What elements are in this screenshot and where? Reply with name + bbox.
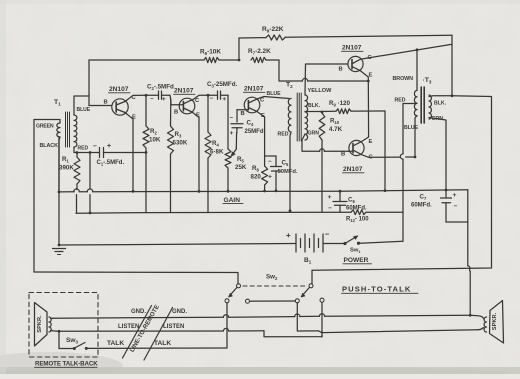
transformer T1 core: [66, 112, 70, 147]
resistor R9 120: [321, 100, 385, 114]
svg-text:4.7K: 4.7K: [329, 126, 343, 133]
svg-text:2N107: 2N107: [343, 166, 363, 173]
capacitor C3 25MFd: [207, 81, 237, 103]
svg-text:GAIN: GAIN: [224, 197, 241, 204]
svg-text:BLUE: BLUE: [267, 91, 282, 97]
svg-text:RED: RED: [78, 146, 89, 152]
battery B1: [286, 230, 345, 265]
wire Q5 collector to T3 blue: [361, 155, 416, 159]
svg-text:GND.: GND.: [131, 309, 146, 315]
ground: [53, 249, 66, 255]
transformer T2 core: [297, 93, 301, 141]
svg-text:+: +: [162, 96, 166, 103]
svg-text:−: −: [93, 143, 97, 150]
wire speaker return: [297, 303, 483, 333]
wire R6 line: [89, 59, 239, 61]
switch Sw3: [66, 337, 88, 350]
label REMOTE TALK-BACK: [35, 361, 99, 368]
resistor R8 820: [251, 165, 268, 192]
wire Q4 emitter to Q5 emitter: [360, 71, 368, 137]
svg-text:TALK: TALK: [107, 340, 124, 347]
svg-text:820: 820: [251, 174, 262, 181]
svg-text:R6-10K: R6-10K: [200, 49, 221, 56]
switch Sw2 right pole: [295, 284, 324, 303]
wire R1 bottom to supply bus: [76, 189, 78, 214]
wire vertical from R11 line down to R6 line: [238, 38, 241, 61]
svg-text:B: B: [339, 67, 343, 73]
transformer T3 primary winding: [393, 76, 418, 116]
svg-text:RED: RED: [395, 98, 406, 104]
resistor R3 530K: [168, 99, 188, 212]
wire talk riser: [226, 303, 228, 348]
speaker remote voice coil: [49, 317, 51, 332]
transformer T1 secondary winding: [74, 115, 77, 147]
svg-text:−: −: [150, 97, 154, 103]
svg-text:−: −: [328, 205, 332, 212]
label GND left: [131, 309, 146, 315]
svg-text:GRN: GRN: [308, 131, 320, 137]
resistor R10 4.7K: [319, 111, 342, 212]
wire GND line: [53, 314, 470, 319]
wire remote speaker bottom: [51, 330, 61, 333]
svg-text:+: +: [453, 192, 457, 199]
wire ground bus drop to speakers: [468, 190, 472, 317]
svg-text:POWER: POWER: [344, 257, 369, 264]
svg-text:60MFd.: 60MFd.: [346, 206, 367, 212]
transistor Q2 2N107: [171, 98, 200, 119]
svg-text:25K: 25K: [235, 164, 247, 171]
wire R11 feedback line top: [239, 35, 452, 38]
wire driver emitter feed y81: [279, 78, 370, 82]
wire BLK lead T3: [429, 94, 453, 106]
wire RED lead T2: [278, 132, 292, 213]
wire YELLOW lead: [305, 64, 348, 95]
svg-text:−: −: [230, 116, 234, 122]
wire battery bus: [59, 244, 296, 246]
resistor R2 10K: [143, 95, 161, 212]
wire GRN lead T3: [429, 116, 447, 191]
wire C1 junction down to supply bus: [89, 151, 92, 214]
svg-text:−: −: [325, 230, 330, 239]
svg-text:+: +: [222, 96, 226, 103]
wire T3 primary top riser: [416, 50, 418, 91]
svg-text:+: +: [230, 130, 234, 137]
cable slash 2: [144, 308, 173, 361]
wire ground stem: [58, 138, 61, 246]
capacitor C7 60MFd: [411, 190, 468, 222]
wire R7 to T2 yellow staircase: [266, 60, 279, 81]
svg-text:GREEN: GREEN: [36, 124, 54, 130]
transformer T1 primary winding: [57, 123, 60, 137]
svg-text:B: B: [341, 152, 345, 158]
svg-text:25MFd: 25MFd: [245, 129, 264, 135]
svg-text:GND.: GND.: [172, 309, 187, 315]
wire bottom bus to Sw2 left pivot: [34, 272, 238, 284]
wire BLUE lead T1: [74, 96, 91, 115]
svg-text:2N107: 2N107: [244, 86, 264, 93]
wire C2 out corner: [170, 95, 171, 105]
transistor Q1 2N107 label: [109, 86, 131, 93]
wire left edge vertical green to Sw2: [33, 120, 35, 273]
svg-text:SPKR.: SPKR.: [37, 315, 43, 333]
svg-text:LISTEN: LISTEN: [118, 324, 139, 330]
transformer T2 primary winding: [288, 99, 291, 133]
svg-text:−: −: [268, 159, 272, 165]
wire BLACK lead: [40, 137, 61, 192]
svg-text:60MFd.: 60MFd.: [411, 203, 432, 209]
wire LISTEN line: [59, 328, 322, 336]
svg-text:TALK: TALK: [154, 340, 171, 347]
svg-text:BLUE: BLUE: [77, 107, 91, 113]
svg-text:530K: 530K: [173, 140, 188, 147]
svg-text:BLACK: BLACK: [40, 143, 59, 149]
svg-text:BLK.: BLK.: [434, 101, 447, 107]
svg-text:10K: 10K: [149, 137, 161, 144]
svg-text:R9 ·120: R9 ·120: [329, 100, 350, 107]
transistor Q5 2N107: [341, 139, 374, 161]
label TALK left: [107, 340, 124, 347]
wire Q2 emitter: [192, 112, 200, 193]
svg-text:C2-.5MFd: C2-.5MFd: [147, 84, 174, 91]
transistor Q3 2N107 label: [244, 86, 266, 93]
wire Q4 collector diagonal: [360, 44, 452, 59]
resistor R11 22K: [262, 26, 285, 40]
svg-text:+: +: [107, 143, 111, 150]
transistor Q4 2N107: [339, 55, 373, 79]
svg-text:REMOTE TALK-BACK: REMOTE TALK-BACK: [35, 361, 98, 368]
capacitor C6 60MFd: [328, 190, 368, 212]
svg-text:R9-22K: R9-22K: [262, 26, 284, 33]
wire Q3 collector to T2 blue: [257, 91, 289, 99]
resistor R1 390K: [59, 153, 80, 189]
svg-text:R7-2.2K: R7-2.2K: [248, 48, 271, 55]
wire GRN lead T2 to Q5 base: [302, 131, 349, 152]
transistor Q3 2N107: [237, 97, 265, 119]
capacitor C4 25MFd: [230, 110, 264, 137]
resistor R7 2.2K: [248, 48, 271, 63]
wire BLUE lead T3: [404, 116, 419, 158]
wire R9 end down to ground: [384, 111, 387, 192]
wire Sw2 center link: [250, 300, 296, 302]
svg-text:2N107: 2N107: [342, 45, 362, 52]
label LINE-TO-REMOTE: [129, 304, 161, 354]
resistor R5 25K gain control: [225, 95, 247, 192]
svg-text:YELLOW: YELLOW: [308, 88, 333, 94]
remote dashed enclosure: [29, 293, 98, 358]
switch Sw2 mechanical link: [243, 285, 306, 287]
transformer T3 core: [421, 87, 424, 123]
svg-text:+: +: [286, 231, 291, 240]
speaker main: [490, 301, 504, 344]
resistor R12 100: [346, 210, 369, 223]
transistor Q2 2N107 label: [174, 88, 196, 95]
wire TALK line: [87, 347, 228, 349]
svg-text:C1-.5MFd.: C1-.5MFd.: [97, 160, 125, 166]
wire Q1 collector riser: [88, 60, 90, 96]
svg-text:BROWN: BROWN: [393, 76, 414, 82]
transistor Q4 2N107 label: [342, 45, 364, 52]
svg-text:E: E: [369, 73, 373, 79]
svg-text:2N107: 2N107: [109, 86, 129, 93]
svg-text:50MFd.: 50MFd.: [278, 169, 298, 175]
svg-text:−: −: [454, 203, 458, 210]
svg-text:B: B: [241, 111, 245, 117]
wire Q3 emitter: [257, 112, 265, 167]
svg-text:PUSH-TO-TALK: PUSH-TO-TALK: [342, 285, 411, 294]
transformer T2 secondary winding: [305, 95, 308, 140]
label LISTEN left: [118, 324, 139, 330]
svg-text:SPKR.: SPKR.: [492, 312, 498, 330]
wire Q5 emitter riser: [361, 137, 368, 142]
svg-text:GRN.: GRN.: [432, 116, 446, 122]
label PUSH-TO-TALK: [342, 285, 419, 294]
wire supply bus: [76, 212, 403, 213]
wire R5 wiper arrow: [231, 133, 236, 156]
wire Q1 base: [89, 96, 112, 106]
cable slash 1: [123, 306, 152, 359]
wire Q1 emitter: [125, 113, 134, 193]
transistor Q5 2N107 label: [343, 166, 365, 173]
svg-text:Sw1: Sw1: [350, 248, 361, 254]
capacitor C1 .5MFd: [76, 143, 148, 166]
resistor R6 10K: [200, 49, 221, 63]
speaker main voice coil: [484, 317, 486, 332]
svg-text:LISTEN: LISTEN: [163, 324, 184, 330]
svg-text:BLUE: BLUE: [404, 125, 419, 131]
label LISTEN right: [163, 324, 184, 330]
transistor Q1 2N107: [104, 95, 137, 121]
svg-text:+: +: [328, 194, 332, 201]
label GAIN: [223, 197, 243, 204]
wire remote bottom drop: [59, 331, 73, 348]
transformer T3 secondary winding: [429, 95, 431, 119]
wire GREEN lead: [34, 120, 60, 130]
wire RED center tap T3: [395, 98, 418, 242]
svg-text:B: B: [104, 100, 108, 106]
wire remote speaker top: [51, 317, 54, 319]
label TALK right: [154, 340, 171, 347]
svg-text:R12- 100: R12- 100: [346, 217, 369, 223]
wire listen riser: [321, 302, 323, 337]
svg-text:+: +: [268, 174, 272, 181]
capacitor C5 50MFd: [265, 156, 298, 192]
wire BLK lead T2: [305, 103, 321, 112]
wire GND line to speaker: [470, 315, 483, 318]
transformer T3 label: [423, 77, 432, 84]
wire Q1 collector: [125, 94, 147, 102]
switch Sw2 label: [266, 274, 278, 281]
svg-text:BLK.: BLK.: [308, 103, 321, 109]
svg-text:390K: 390K: [59, 165, 74, 172]
switch Sw2 left pole: [225, 284, 250, 303]
svg-text:−: −: [210, 96, 214, 102]
wire feedback column: [451, 35, 453, 96]
wire Q2 collector: [192, 95, 218, 100]
transformer T2 label: [286, 82, 293, 89]
wire RED lead T1: [74, 146, 97, 153]
speaker remote: [35, 303, 48, 347]
transformer T1 label: [54, 99, 61, 106]
wire ground bus: [59, 189, 468, 192]
label GND right: [172, 309, 187, 315]
svg-text:B: B: [174, 110, 178, 116]
switch Sw1 power: [343, 236, 403, 264]
wire output line right: [312, 96, 492, 284]
svg-text:2N107: 2N107: [174, 88, 194, 95]
svg-text:RED: RED: [278, 132, 289, 138]
resistor R4 6.8K: [205, 94, 224, 213]
svg-text:6·8K: 6·8K: [210, 149, 224, 156]
svg-text:E: E: [369, 139, 373, 145]
capacitor C2 .5MFd: [146, 84, 174, 104]
